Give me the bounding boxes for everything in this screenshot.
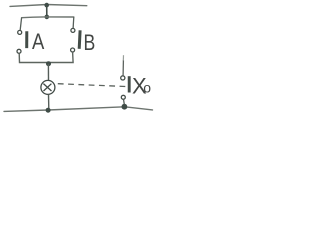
wire junction to lamp (47, 64, 49, 81)
junction dot on second rail (45, 15, 50, 20)
svg-text:A: A (32, 29, 45, 54)
contact A top terminal (18, 30, 22, 34)
second rail (22, 16, 74, 19)
contact B bottom terminal (71, 48, 75, 52)
lamp X cross stroke 2 (44, 84, 52, 91)
wire A bottom to junction (19, 53, 47, 62)
switch X0 upper wire (122, 61, 124, 76)
junction dot bottom right (122, 104, 128, 110)
bottom rail (4, 107, 153, 112)
contact B top terminal (71, 28, 75, 32)
switch X0 upper wire faded tip (122, 55, 124, 61)
dashed link lamp to switch (58, 84, 126, 87)
wire drop to contact A (20, 18, 21, 30)
lamp X cross stroke 1 (43, 84, 51, 91)
wire between rails (46, 5, 48, 16)
wire switch to bottom rail (123, 99, 126, 104)
wire lamp to bottom rail (48, 95, 50, 109)
lamp X circle (41, 80, 55, 94)
top supply rail (10, 5, 87, 7)
wire drop to contact B (72, 17, 75, 28)
junction dot above lamp (46, 61, 51, 66)
wire B bottom to junction (49, 52, 73, 63)
junction dot on top rail (44, 3, 49, 8)
contact B bar (78, 30, 82, 49)
junction dot bottom left (46, 108, 51, 113)
svg-text:B: B (84, 30, 96, 55)
switch X0 top terminal (121, 76, 125, 80)
contact A bar (25, 31, 28, 48)
svg-text:o: o (143, 80, 151, 96)
contact A bottom terminal (17, 49, 21, 53)
switch X0 bottom terminal (121, 95, 125, 99)
switch X0 bar (128, 76, 131, 92)
